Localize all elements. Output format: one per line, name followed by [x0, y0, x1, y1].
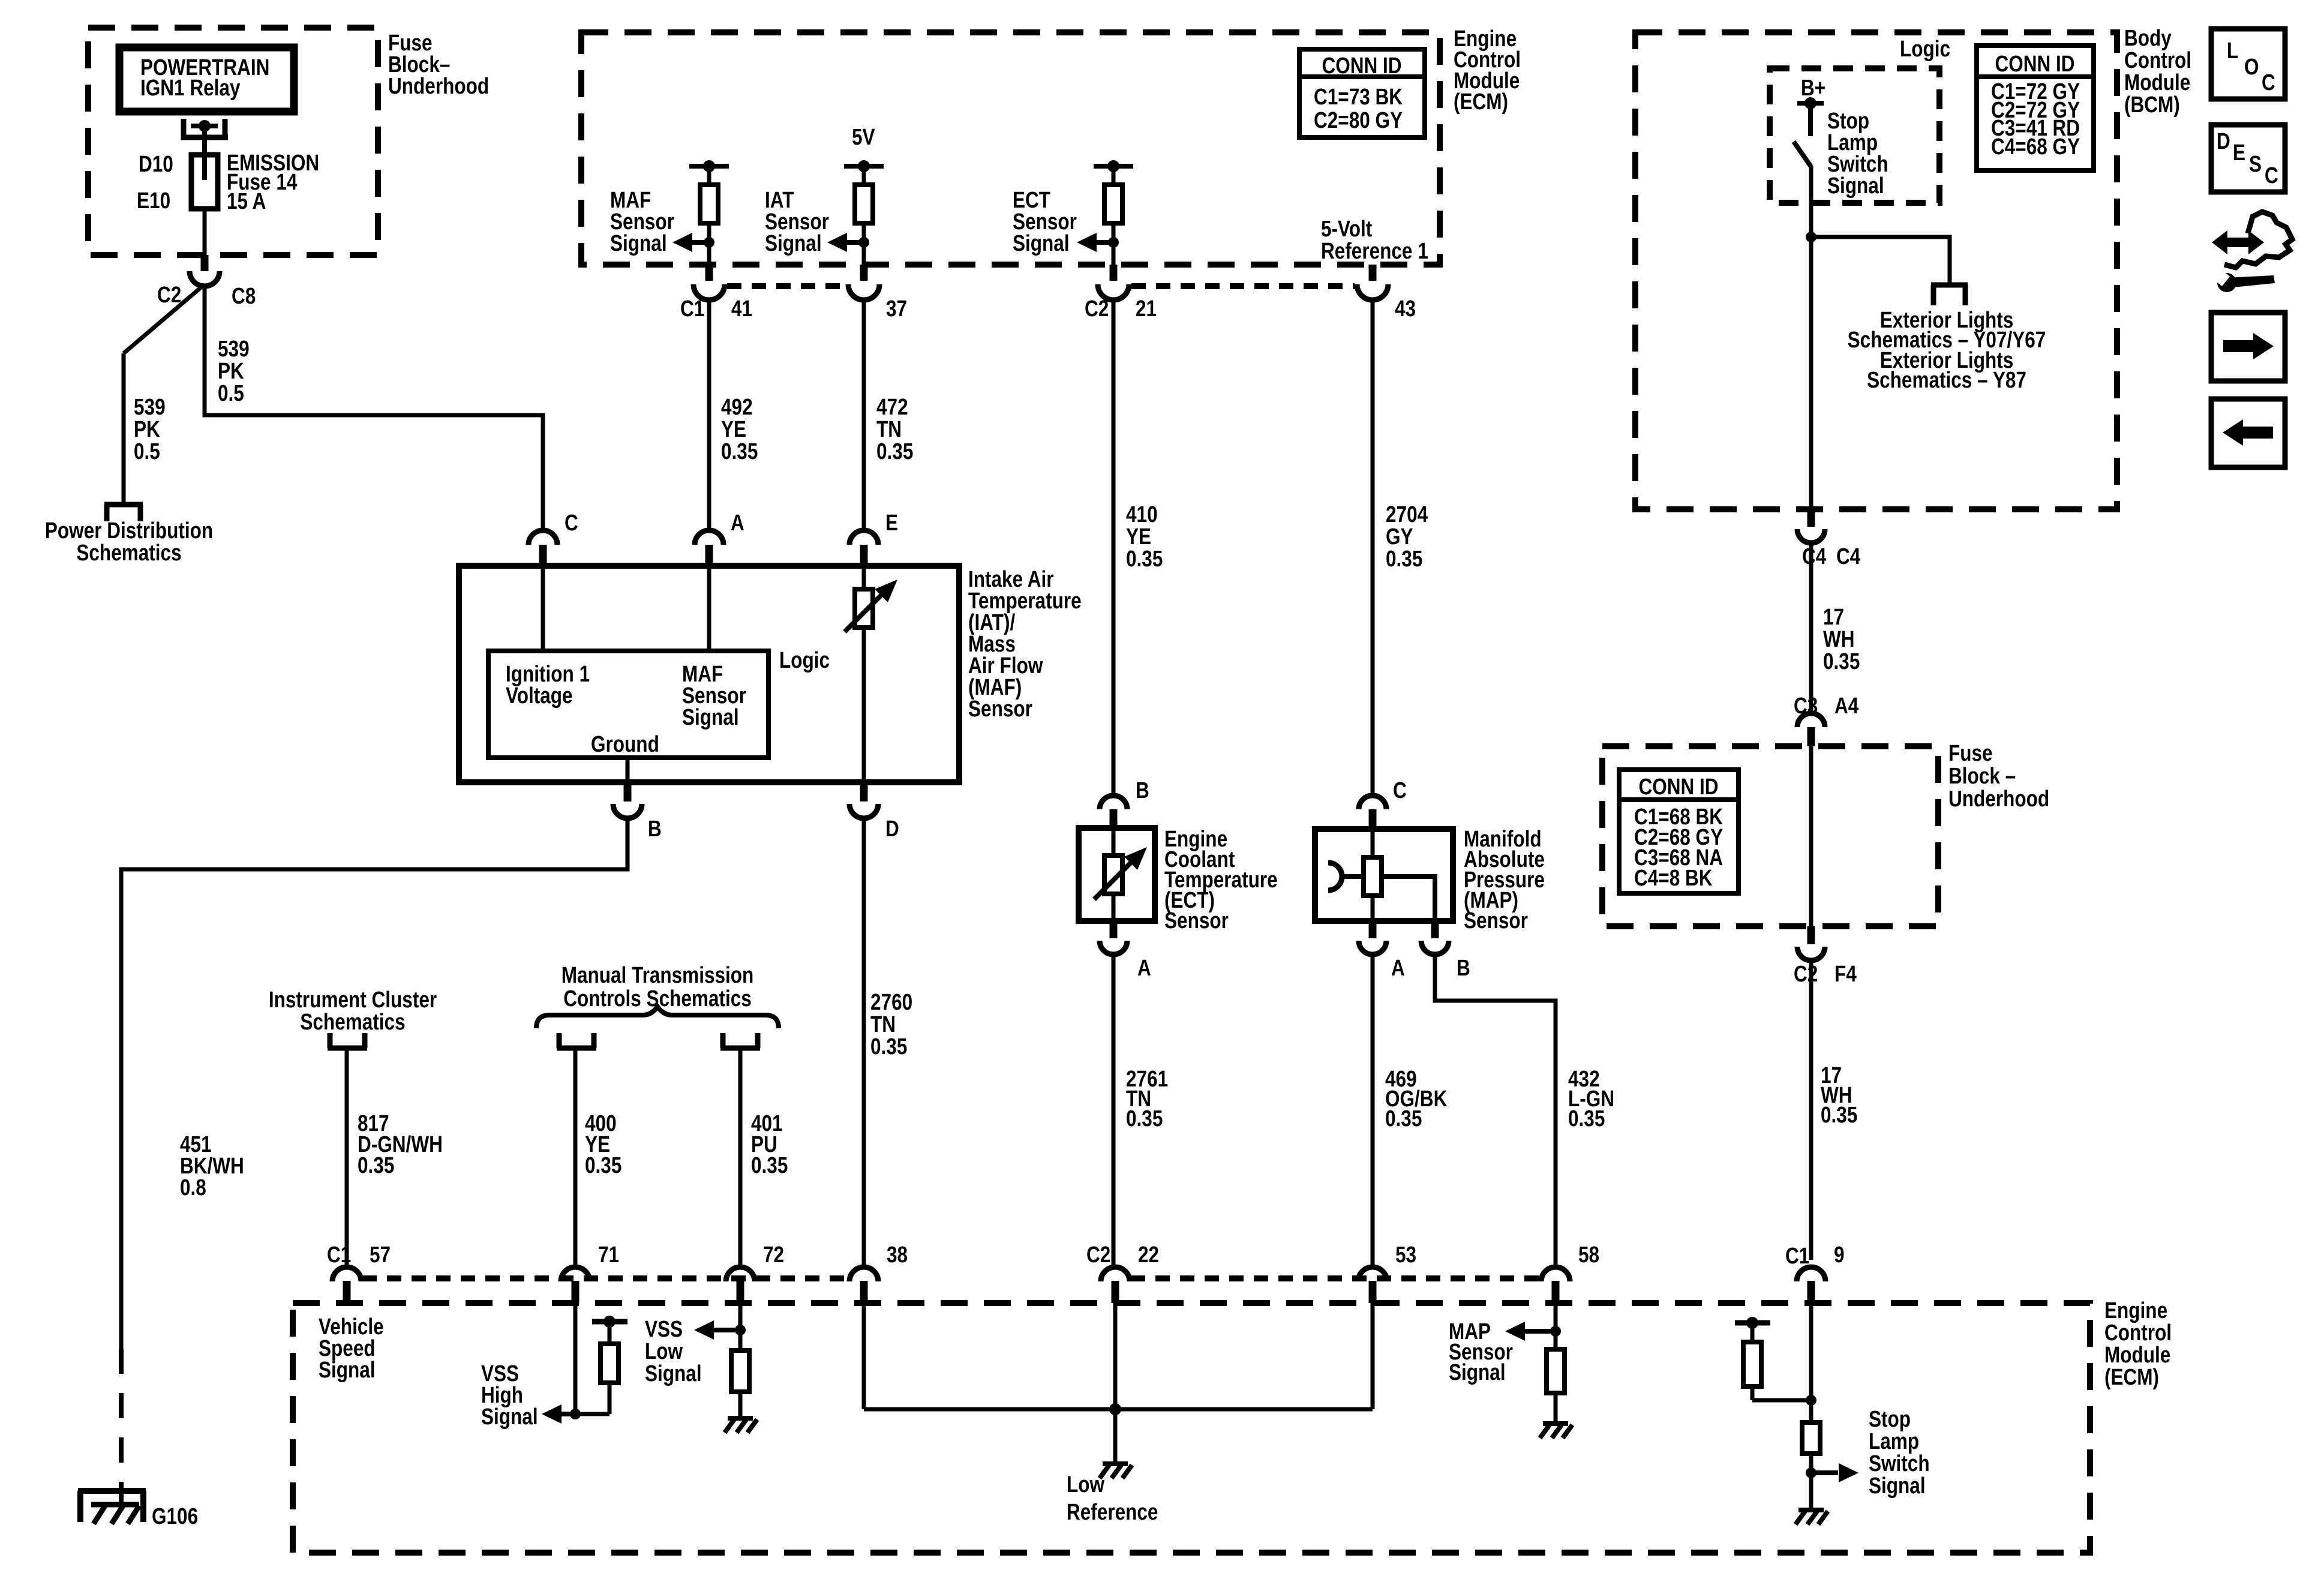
- svg-text:B: B: [648, 816, 662, 841]
- wire relay to fuse: [202, 126, 207, 157]
- stub A (ECT): [1110, 921, 1118, 938]
- icon arrow right: [2211, 313, 2285, 381]
- svg-text:72: 72: [763, 1242, 784, 1267]
- svg-text:F4: F4: [1834, 961, 1857, 986]
- connector stub pin 71: [572, 1281, 580, 1303]
- svg-text:C2: C2: [1085, 296, 1109, 321]
- junction dot: [1806, 232, 1816, 242]
- svg-text:CONN ID: CONN ID: [1995, 51, 2074, 76]
- svg-text:O: O: [2244, 54, 2259, 79]
- wire 472 TN to MAF E: [862, 301, 866, 531]
- svg-text:(ECM): (ECM): [2104, 1364, 2159, 1389]
- wire 71 inside ECM: [574, 1303, 578, 1414]
- ECM bottom dashed box: [293, 1303, 2090, 1553]
- CONN ID table (fuse block): [1619, 770, 1739, 893]
- wire 2704 GY to MAP C: [1371, 301, 1375, 795]
- wire to exterior lights: [1811, 237, 1950, 285]
- ECM top dashed box: [581, 32, 1440, 265]
- svg-text:G106: G106: [152, 1503, 198, 1529]
- svg-text:C1=73 BK: C1=73 BK: [1314, 84, 1403, 109]
- VSS high branch bar: [592, 1319, 627, 1325]
- wire 817 D-GN/WH: [345, 1048, 349, 1268]
- svg-text:0.35: 0.35: [585, 1152, 621, 1178]
- wire 432 L-GN: [1435, 954, 1556, 1268]
- svg-text:D10: D10: [139, 151, 173, 176]
- svg-text:D: D: [885, 816, 899, 841]
- B+ dot: [1804, 97, 1816, 109]
- svg-text:71: 71: [598, 1242, 619, 1267]
- power distribution bracket: [104, 502, 143, 508]
- svg-text:0.35: 0.35: [876, 439, 913, 464]
- svg-text:Schematics: Schematics: [300, 1009, 405, 1034]
- wire 410 YE to ECT B: [1112, 301, 1116, 795]
- svg-text:(BCM): (BCM): [2124, 92, 2180, 117]
- BCM logic dashed box: [1770, 68, 1939, 203]
- stub B: [624, 782, 632, 801]
- resistor stop lamp main: [1802, 1422, 1820, 1454]
- svg-text:C2: C2: [1794, 961, 1818, 986]
- svg-text:C2=80 GY: C2=80 GY: [1314, 107, 1403, 133]
- manual trans bracket 1: [557, 1046, 596, 1051]
- pull-up resistor group IAT x=1440: [844, 164, 884, 169]
- connector cup pin 58: [1541, 1267, 1570, 1281]
- svg-text:0.35: 0.35: [721, 439, 758, 464]
- svg-text:S: S: [2249, 151, 2262, 176]
- dotted connector line C1: [727, 283, 846, 289]
- wire through fuse block: [1809, 746, 1813, 926]
- svg-text:C4: C4: [1836, 544, 1861, 569]
- svg-text:C4=8 BK: C4=8 BK: [1634, 865, 1713, 890]
- wire 492 YE to MAF A: [707, 301, 711, 531]
- svg-text:Underhood: Underhood: [1948, 786, 2049, 811]
- svg-text:0.35: 0.35: [1385, 1106, 1422, 1131]
- svg-text:CONN ID: CONN ID: [1322, 53, 1401, 78]
- ECT thermistor arrow line: [1094, 861, 1132, 899]
- junction dot MAP signal: [1550, 1326, 1561, 1337]
- svg-text:(ECM): (ECM): [1454, 89, 1508, 114]
- junction dot low reference: [1109, 1403, 1121, 1415]
- wire 53 inside ECM: [1371, 1303, 1375, 1409]
- icon arrow left: [2211, 399, 2285, 467]
- wire 17 WH lower: [1809, 960, 1813, 1260]
- relay contact dot: [199, 120, 211, 132]
- VSS high branch dot: [603, 1316, 615, 1328]
- svg-text:A: A: [1137, 955, 1151, 980]
- junction dot VSS low: [735, 1325, 746, 1335]
- ground (low reference): [1103, 1461, 1128, 1466]
- cup C3/A4: [1797, 713, 1825, 727]
- svg-text:15 A: 15 A: [227, 188, 266, 214]
- svg-text:0.35: 0.35: [1126, 1106, 1163, 1131]
- VSS high join: [575, 1412, 609, 1416]
- svg-text:0.35: 0.35: [1823, 649, 1860, 674]
- svg-text:Sensor: Sensor: [1464, 908, 1528, 933]
- svg-text:0.5: 0.5: [218, 380, 244, 406]
- resistor MAP signal: [1547, 1349, 1565, 1393]
- svg-text:Signal: Signal: [1827, 173, 1884, 198]
- thermistor (IAT) inside MAF box: [862, 566, 866, 782]
- svg-text:C: C: [565, 510, 578, 535]
- svg-text:37: 37: [886, 296, 907, 321]
- cup D: [849, 804, 878, 818]
- icon LOC: [2211, 29, 2285, 99]
- wire 401 PU: [738, 1048, 743, 1268]
- svg-text:Reference: Reference: [1067, 1499, 1158, 1524]
- svg-text:Signal: Signal: [610, 230, 667, 256]
- arrow VSS high signal: [542, 1404, 562, 1424]
- stop lamp branch bar: [1735, 1320, 1770, 1326]
- pull-up resistor group ECT x=1856: [1094, 164, 1133, 169]
- svg-text:Signal: Signal: [1869, 1473, 1926, 1498]
- connector stub pin 38: [860, 1281, 868, 1303]
- ground (VSS low): [728, 1416, 753, 1421]
- arrow VSS low signal: [694, 1320, 714, 1340]
- svg-text:C: C: [2265, 163, 2278, 188]
- svg-text:0.35: 0.35: [751, 1152, 788, 1178]
- MAF connector stub E: [860, 545, 868, 566]
- cup C (MAP): [1359, 795, 1386, 809]
- resistor stop lamp branch: [1743, 1342, 1761, 1386]
- wire 2761 TN: [1112, 954, 1116, 1268]
- fuse EMISSION Fuse 14: [191, 155, 218, 209]
- connector stub pin 72: [737, 1281, 744, 1303]
- junction dot VSS high: [570, 1409, 581, 1419]
- svg-text:Logic: Logic: [779, 647, 830, 673]
- svg-text:Block –: Block –: [1948, 763, 2016, 788]
- connector stub pin 37: [860, 265, 868, 281]
- svg-text:E: E: [885, 510, 898, 535]
- svg-text:21: 21: [1136, 296, 1157, 321]
- connector cup pin 22: [1101, 1267, 1130, 1281]
- svg-text:Sensor: Sensor: [968, 696, 1032, 721]
- stop lamp branch join: [1752, 1398, 1811, 1403]
- stop lamp switch blade: [1794, 142, 1811, 167]
- cup A (ECT): [1100, 941, 1127, 954]
- fuse block right dashed box: [1602, 746, 1938, 926]
- wire 72 inside ECM: [738, 1303, 743, 1350]
- MAP sensor box: [1315, 829, 1453, 921]
- svg-text:Schematics: Schematics: [76, 540, 181, 565]
- svg-text:C1: C1: [1785, 1243, 1809, 1268]
- cup B (MAP): [1421, 941, 1449, 954]
- svg-text:57: 57: [370, 1242, 391, 1267]
- svg-text:22: 22: [1138, 1242, 1159, 1267]
- wire ground out of logic box: [626, 758, 630, 782]
- svg-text:Signal: Signal: [1013, 230, 1070, 256]
- svg-text:Logic: Logic: [1900, 36, 1950, 61]
- connector cup C2/C8: [190, 271, 220, 286]
- svg-text:B+: B+: [1801, 75, 1825, 100]
- connector stub pin 41: [705, 265, 713, 281]
- svg-text:C2: C2: [1086, 1242, 1110, 1267]
- stub C4: [1807, 509, 1815, 527]
- arrow stop lamp switch signal: [1839, 1463, 1858, 1482]
- svg-text:9: 9: [1834, 1242, 1845, 1267]
- connector cup pin 57: [332, 1267, 361, 1281]
- svg-text:Signal: Signal: [645, 1361, 702, 1386]
- MAP arc to resistor link: [1341, 874, 1364, 879]
- svg-text:E: E: [2233, 140, 2245, 165]
- wire 469 OG/BK: [1371, 954, 1375, 1268]
- ECT sensor box: [1079, 828, 1155, 921]
- wire C8 539 PK to MAF C: [205, 284, 543, 531]
- wire 17 WH upper: [1809, 543, 1813, 713]
- cup A (MAP): [1359, 941, 1386, 954]
- CONN ID table (ECM): [1299, 49, 1425, 137]
- POWERTRAIN IGN1 Relay box: [119, 47, 294, 112]
- BCM dashed box: [1635, 32, 2117, 509]
- svg-text:CONN ID: CONN ID: [1638, 774, 1718, 799]
- cup B: [613, 804, 642, 818]
- connector stub pin 22: [1112, 1281, 1119, 1303]
- pull-up resistor group MAF x=1182: [689, 164, 729, 169]
- ground (stop lamp): [1798, 1508, 1824, 1512]
- icon wrench/service: [2212, 230, 2264, 254]
- svg-text:58: 58: [1578, 1242, 1599, 1267]
- svg-text:Sensor: Sensor: [1164, 908, 1229, 933]
- svg-text:Fuse: Fuse: [1948, 740, 1993, 766]
- svg-text:C: C: [1393, 778, 1407, 803]
- wire 451 to G106 solid part: [121, 817, 627, 1349]
- svg-text:Low: Low: [1067, 1472, 1105, 1497]
- wire 38 inside ECM: [862, 1303, 866, 1409]
- junction dot stop lamp: [1806, 1395, 1816, 1406]
- fuse block underhood dashed box (top left): [88, 28, 378, 255]
- svg-text:5V: 5V: [852, 124, 875, 149]
- svg-text:C8: C8: [232, 283, 256, 308]
- connector cup pin 53: [1358, 1267, 1387, 1281]
- wire 2760 TN: [862, 817, 866, 1268]
- wire inside fuse: [202, 155, 207, 180]
- connector cup pin 9: [1797, 1267, 1825, 1281]
- B+ stem: [1808, 103, 1813, 136]
- connector stub pin 53: [1369, 1281, 1377, 1303]
- connector stub pin 43: [1369, 265, 1377, 281]
- svg-text:C3: C3: [1794, 693, 1818, 718]
- svg-text:Voltage: Voltage: [506, 683, 573, 708]
- MAF sensor box: [459, 566, 959, 782]
- wire switch to C4: [1809, 166, 1813, 511]
- svg-text:Signal: Signal: [319, 1357, 376, 1382]
- MAF connector stub A: [705, 545, 713, 566]
- svg-text:C4=68 GY: C4=68 GY: [1991, 134, 2080, 159]
- stub B (MAP): [1431, 921, 1439, 938]
- svg-text:B: B: [1457, 955, 1470, 980]
- connector cup pin 38: [849, 1267, 878, 1281]
- wire 58 inside ECM: [1554, 1303, 1558, 1349]
- MAP resistor to B branch: [1382, 876, 1435, 921]
- ground (MAP signal): [1543, 1421, 1568, 1426]
- cup B (ECT): [1100, 795, 1127, 809]
- instrument cluster bracket: [328, 1046, 367, 1051]
- connector stub pin 21: [1110, 265, 1118, 281]
- manual trans bracket 2: [720, 1046, 760, 1051]
- svg-text:Signal: Signal: [682, 704, 739, 730]
- connector stub C2/C8: [201, 255, 209, 271]
- junction dot stop lamp signal: [1806, 1467, 1816, 1478]
- wire C2 vertical to power distribution: [122, 353, 126, 505]
- CONN ID table (BCM): [1977, 46, 2094, 170]
- B+ bar: [1797, 101, 1824, 106]
- svg-text:IGN1 Relay: IGN1 Relay: [140, 75, 241, 100]
- exterior lights bracket: [1931, 283, 1968, 288]
- resistor VSS high: [600, 1344, 618, 1383]
- svg-text:38: 38: [887, 1242, 908, 1267]
- dotted connector line C1 bottom: [1131, 1275, 1540, 1281]
- stub A (MAP): [1369, 921, 1377, 938]
- resistor VSS low: [731, 1350, 749, 1392]
- svg-text:C4: C4: [1802, 544, 1827, 569]
- ECT thermistor: [1104, 855, 1122, 894]
- wire C2 diagonal: [124, 284, 205, 353]
- wire fuse to connector C2/C8: [203, 209, 207, 257]
- svg-text:B: B: [1136, 778, 1149, 803]
- svg-text:D: D: [2217, 128, 2230, 154]
- svg-text:A: A: [1391, 955, 1405, 980]
- svg-text:0.35: 0.35: [358, 1152, 394, 1178]
- stub D: [860, 782, 868, 801]
- MAF logic inner box: [488, 651, 768, 758]
- connector cup pin 21: [1098, 284, 1129, 300]
- svg-text:0.8: 0.8: [180, 1175, 206, 1200]
- svg-text:0.35: 0.35: [1568, 1106, 1605, 1131]
- connector cup pin 72: [726, 1267, 755, 1281]
- svg-text:Ground: Ground: [591, 731, 659, 757]
- thermistor arrow line: [845, 594, 882, 632]
- svg-text:Signal: Signal: [481, 1404, 538, 1429]
- cup C2/F4: [1797, 947, 1825, 960]
- connector cup pin 37: [848, 284, 879, 300]
- svg-text:0.5: 0.5: [134, 439, 160, 464]
- svg-text:C1: C1: [680, 296, 704, 321]
- wire through ECT: [1112, 828, 1116, 921]
- wire 22 inside ECM: [1113, 1303, 1118, 1409]
- connector cup pin 71: [561, 1267, 590, 1281]
- svg-text:E10: E10: [137, 188, 170, 213]
- MAP transducer resistor: [1364, 857, 1382, 896]
- svg-text:0.35: 0.35: [1126, 546, 1163, 571]
- svg-text:A4: A4: [1834, 693, 1859, 718]
- wire 9 inside ECM: [1809, 1303, 1813, 1422]
- MAF connector cup A: [695, 530, 723, 545]
- arrow MAP sensor signal: [1505, 1322, 1525, 1341]
- svg-text:Signal: Signal: [1449, 1359, 1506, 1385]
- svg-text:53: 53: [1395, 1242, 1416, 1267]
- ground G106: [78, 1488, 146, 1494]
- connector cup pin 43: [1357, 284, 1388, 300]
- connector cup pin 41: [693, 284, 725, 300]
- svg-text:0.35: 0.35: [1821, 1102, 1857, 1127]
- svg-text:0.35: 0.35: [1386, 546, 1422, 571]
- svg-text:0.35: 0.35: [870, 1034, 907, 1059]
- relay contact bar: [191, 124, 218, 128]
- connector stub pin 58: [1552, 1281, 1560, 1303]
- MAF connector stub C: [539, 545, 547, 566]
- svg-text:Signal: Signal: [765, 230, 822, 256]
- connector stub pin 57: [343, 1281, 351, 1303]
- wire A to logic box: [707, 566, 711, 651]
- svg-text:C2: C2: [157, 282, 181, 307]
- dotted connector line C2: [1131, 283, 1355, 289]
- svg-text:Schematics – Y87: Schematics – Y87: [1867, 367, 2026, 392]
- stop lamp branch dot: [1746, 1317, 1758, 1329]
- svg-text:43: 43: [1395, 296, 1416, 321]
- wire C to logic box: [541, 566, 545, 651]
- MAF connector cup E: [849, 530, 878, 545]
- svg-text:A: A: [731, 510, 744, 535]
- MAF connector cup C: [529, 530, 557, 545]
- relay contact bracket: [181, 119, 187, 140]
- wire to low reference ground: [1113, 1409, 1118, 1464]
- svg-text:L: L: [2227, 38, 2238, 63]
- wire 400 YE: [574, 1048, 578, 1268]
- connector stub pin 9: [1807, 1281, 1815, 1303]
- icon DESC: [2211, 125, 2285, 192]
- svg-text:Underhood: Underhood: [388, 73, 489, 98]
- low reference horizontal wire: [864, 1407, 1373, 1412]
- svg-text:Reference 1: Reference 1: [1321, 238, 1428, 263]
- svg-text:41: 41: [731, 296, 752, 321]
- svg-text:Manual Transmission: Manual Transmission: [562, 962, 754, 987]
- cup C4/C4: [1797, 529, 1825, 543]
- svg-text:C: C: [2262, 70, 2275, 95]
- stub C2/F4: [1807, 926, 1815, 944]
